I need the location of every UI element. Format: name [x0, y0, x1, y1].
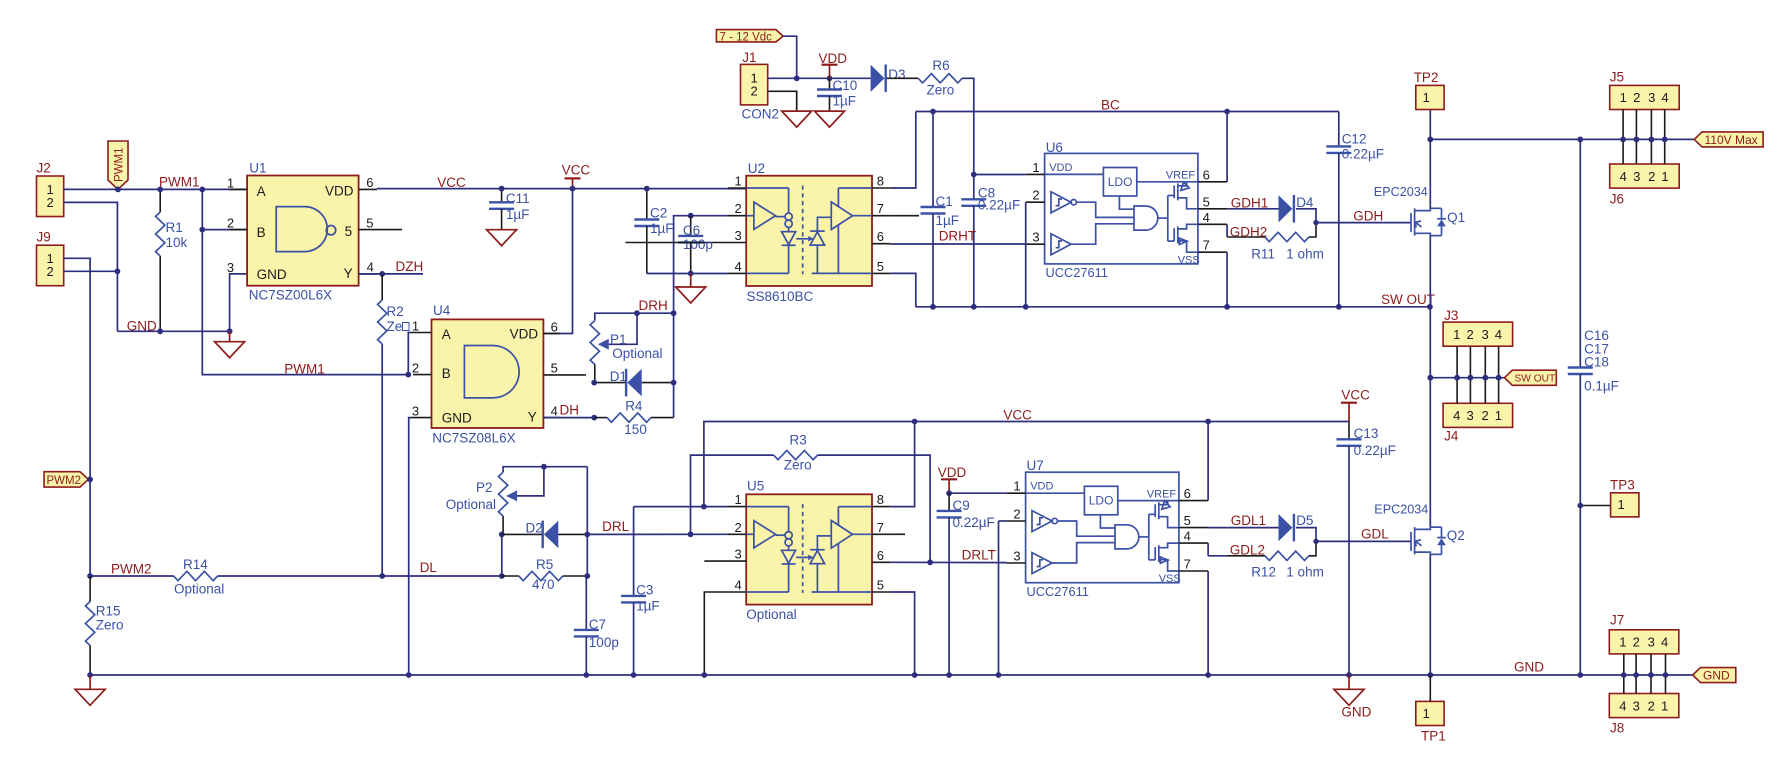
wire J1.1 to D3: [768, 77, 871, 79]
wire VCC lower rail: [704, 422, 1349, 507]
J6 stubs: [1623, 139, 1665, 164]
svg-text:D2: D2: [526, 521, 543, 536]
svg-text:7 - 12 Vdc: 7 - 12 Vdc: [720, 31, 773, 43]
wire U4.3 GND drop: [409, 418, 411, 675]
svg-text:1µF: 1µF: [936, 213, 960, 228]
svg-text:TP1: TP1: [1421, 728, 1446, 743]
IC U7 UCC27611: [1007, 472, 1209, 599]
svg-text:GND: GND: [1514, 659, 1544, 674]
svg-text:10k: 10k: [166, 235, 188, 250]
wire VCC down to U4.VDD: [543, 189, 572, 334]
svg-text:C12: C12: [1342, 132, 1367, 147]
svg-text:U6: U6: [1046, 140, 1063, 155]
connector J2: [37, 176, 64, 217]
node branch top: [199, 187, 205, 193]
svg-text:U2: U2: [748, 161, 765, 176]
svg-text:R6: R6: [932, 58, 949, 73]
U2 pin7 NC stub extension: [890, 215, 919, 217]
capacitor C7 100p: [585, 576, 587, 630]
ground under C11: [487, 230, 517, 246]
svg-text:P2: P2: [476, 480, 493, 495]
svg-text:GDL: GDL: [1361, 526, 1389, 541]
svg-text:VCC: VCC: [562, 162, 591, 177]
tag PWM2: [44, 472, 88, 487]
diode D2: [499, 532, 505, 538]
node R2 top: [379, 271, 385, 277]
svg-text:D3: D3: [888, 67, 905, 82]
svg-text:VCC: VCC: [1341, 388, 1370, 403]
wire U1.VDD to U2.1 (net VCC): [377, 188, 746, 190]
svg-text:110V Max: 110V Max: [1705, 133, 1758, 147]
svg-text:1: 1: [412, 319, 419, 334]
diode D3: [871, 65, 886, 93]
J5 stubs: [1623, 110, 1665, 140]
wire J9.1 down to PWM2: [64, 258, 90, 576]
svg-text:R15: R15: [96, 603, 121, 618]
svg-text:C11: C11: [506, 191, 530, 206]
svg-text:GDL1: GDL1: [1231, 513, 1266, 528]
svg-text:1µF: 1µF: [833, 94, 857, 109]
svg-text:GND: GND: [1703, 668, 1730, 682]
svg-text:B: B: [257, 225, 266, 240]
wire J3 row (SW OUT): [1430, 377, 1504, 379]
wire U1.Y DZH: [359, 273, 423, 275]
svg-text:Optional: Optional: [612, 346, 662, 361]
svg-text:2: 2: [412, 361, 419, 376]
svg-text:Y: Y: [528, 410, 537, 425]
svg-text:SW OUT: SW OUT: [1515, 374, 1556, 385]
wire J1.2 to ground: [768, 91, 797, 111]
svg-text:J4: J4: [1444, 429, 1459, 444]
capacitor C12 0.22uF: [1338, 112, 1340, 147]
wire BC: [916, 111, 1339, 113]
svg-text:DZH: DZH: [396, 259, 424, 274]
tag SW OUT: [1505, 370, 1557, 385]
capacitor C16 C17 C18 0.1uF: [1568, 368, 1593, 375]
wire U5.8 up to VCC: [890, 422, 914, 507]
wire branch to U1.B: [202, 229, 247, 231]
svg-text:C1: C1: [936, 194, 953, 209]
wire U2.5 to SW node: [890, 273, 916, 306]
connector J8: [1609, 694, 1679, 718]
svg-text:2: 2: [227, 216, 234, 231]
ground under U1: [229, 331, 231, 341]
wire C2 bottom to U2.4: [647, 273, 728, 275]
svg-text:R14: R14: [183, 557, 208, 572]
U2 pin3 NC stub extension: [625, 242, 704, 244]
svg-text:0.22µF: 0.22µF: [1354, 443, 1396, 458]
wire U2.2 elbow to DRH column: [674, 216, 728, 314]
svg-text:TP3: TP3: [1610, 478, 1635, 493]
svg-text:1 ohm: 1 ohm: [1286, 565, 1324, 580]
svg-text:DRHT: DRHT: [939, 228, 977, 243]
svg-text:P1: P1: [610, 332, 627, 347]
svg-text:GDH: GDH: [1353, 209, 1383, 224]
capacitor C9 0.22uF: [948, 493, 950, 511]
svg-text:J1: J1: [742, 50, 756, 65]
svg-text:1µF: 1µF: [506, 207, 530, 222]
ground under C13: [1348, 675, 1350, 689]
svg-text:C3: C3: [636, 582, 653, 597]
svg-text:J8: J8: [1610, 721, 1624, 736]
svg-text:PWM1: PWM1: [284, 361, 325, 376]
svg-text:D1: D1: [610, 369, 627, 384]
svg-text:3: 3: [412, 404, 419, 419]
wire U7.7 VSS down to GND: [1207, 571, 1209, 675]
svg-text:150: 150: [624, 422, 647, 437]
svg-text:R11: R11: [1251, 247, 1275, 262]
nodes J7/J8 stubs: [1621, 672, 1627, 678]
resistor R1 10k: [159, 189, 161, 212]
wire DRH column down: [673, 313, 675, 417]
svg-text:U7: U7: [1027, 458, 1044, 473]
svg-text:6: 6: [366, 175, 373, 190]
nodes J5/J6 stubs: [1620, 137, 1626, 143]
svg-text:R5: R5: [536, 557, 553, 572]
transistor Q1 EPC2034: [1411, 208, 1446, 235]
svg-text:0.22µF: 0.22µF: [978, 198, 1020, 213]
wire GDH to Q1 gate: [1316, 222, 1411, 224]
svg-text:VCC: VCC: [1003, 407, 1032, 422]
wire C16 column from 110V rail: [1579, 139, 1581, 367]
connector J6: [1610, 164, 1680, 188]
node VDD/C10: [827, 75, 833, 81]
wire U5 pin1 to C3: [634, 506, 728, 508]
resistor R3 Zero bypass: [691, 455, 774, 534]
svg-text:D5: D5: [1296, 513, 1313, 528]
power symbol VCC (top): [572, 178, 574, 188]
resistor R2 Zero: [381, 274, 383, 300]
wire DRLT U5.6 to U7.3: [890, 561, 1007, 563]
node DRH column: [671, 310, 677, 316]
capacitor C8 0.22uF: [961, 199, 986, 206]
wire 110V rail: [1430, 138, 1694, 140]
wire U7.2 elbow: [999, 520, 1007, 522]
capacitor C11 1uF: [501, 189, 503, 203]
svg-text:NC7SZ08L6X: NC7SZ08L6X: [432, 431, 515, 446]
ground under C6: [690, 274, 692, 288]
J7 stubs: [1624, 654, 1666, 675]
svg-text:EPC2034: EPC2034: [1374, 185, 1428, 199]
svg-text:5: 5: [551, 361, 558, 376]
connector J1: [741, 64, 768, 105]
svg-text:1: 1: [227, 175, 234, 190]
svg-text:B: B: [442, 366, 451, 381]
svg-text:Ze: Ze: [387, 319, 403, 334]
svg-text:C9: C9: [953, 498, 970, 513]
wire DRH top: [595, 313, 674, 320]
svg-text:SS8610BC: SS8610BC: [747, 289, 814, 304]
resistor R4 150: [594, 417, 607, 419]
wire U6.2 drop to SW node: [1025, 202, 1027, 307]
connector J7: [1609, 630, 1679, 654]
IC U2 SS8610BC: [704, 174, 890, 287]
svg-text:SW OUT: SW OUT: [1381, 292, 1435, 307]
wire D2 node column: [586, 467, 588, 576]
svg-text:1 ohm: 1 ohm: [1286, 247, 1324, 262]
wire U4.Y DH: [543, 417, 594, 419]
svg-text:J7: J7: [1610, 613, 1624, 628]
node branch B: [199, 227, 205, 233]
node R1 bottom: [157, 328, 163, 334]
svg-text:5: 5: [345, 224, 353, 239]
ground under J1.2: [782, 111, 812, 127]
svg-text:J2: J2: [37, 161, 51, 176]
wire U5.4 down to GND: [704, 592, 728, 675]
power symbol VCC (lower right): [1348, 403, 1350, 422]
svg-text:BC: BC: [1101, 97, 1120, 112]
tag GND: [1693, 668, 1736, 683]
connector J3: [1443, 322, 1513, 346]
svg-text:VDD: VDD: [325, 183, 354, 198]
wire C8 to U6.1: [974, 174, 1026, 176]
test point TP1: [1416, 701, 1444, 725]
diode D4 + resistor R11: [1227, 195, 1319, 242]
wire U1.GND elbow: [230, 274, 248, 331]
svg-text:R2: R2: [387, 304, 404, 319]
svg-text:U1: U1: [249, 161, 266, 176]
wire VDD to U7.1: [949, 492, 1007, 494]
svg-text:J9: J9: [37, 230, 51, 245]
wire P2 bottom column: [501, 534, 503, 576]
svg-text:GND: GND: [442, 411, 472, 426]
diode D1: [594, 382, 626, 384]
svg-text:NC7SZ00L6X: NC7SZ00L6X: [249, 287, 332, 302]
capacitor C6 100p: [688, 213, 694, 219]
svg-text:R1: R1: [166, 220, 183, 235]
svg-text:DRLT: DRLT: [962, 547, 996, 562]
node R15 bottom: [87, 672, 93, 678]
svg-text:Q2: Q2: [1447, 528, 1465, 543]
wire Q2 source down to GND: [1429, 554, 1431, 675]
svg-text:PWM2: PWM2: [47, 475, 82, 487]
connector J4: [1443, 403, 1513, 427]
svg-text:A: A: [442, 327, 451, 342]
svg-text:GDH2: GDH2: [1230, 225, 1268, 240]
svg-text:VCC: VCC: [437, 175, 466, 190]
wire U6.4 elbow down: [1226, 224, 1228, 237]
svg-text:PWM2: PWM2: [111, 561, 152, 576]
wire Q1 drain up to 110V rail: [1429, 110, 1431, 209]
J4 stubs: [1457, 378, 1499, 404]
svg-text:VDD: VDD: [938, 465, 967, 480]
node Q1 source / SW: [1427, 304, 1433, 310]
svg-text:J6: J6: [1610, 192, 1624, 207]
IC U1 NC7SZ00L6X: [227, 175, 402, 286]
U5 pin7 NC stub extension: [890, 533, 905, 535]
svg-text:C18: C18: [1584, 355, 1609, 370]
potentiometer P1 Optional: [590, 321, 599, 365]
wire U6.6 VREF up to BC: [1226, 112, 1228, 182]
svg-text:PWM1: PWM1: [114, 148, 126, 183]
svg-text:1µF: 1µF: [650, 221, 674, 236]
transistor Q2 EPC2034: [1411, 527, 1446, 554]
svg-text:PWM1: PWM1: [159, 175, 200, 190]
svg-text:0.22µF: 0.22µF: [1342, 147, 1384, 162]
tag PWM1 (vertical flag): [108, 141, 128, 189]
wire DRHT U2.6 to U6.3: [890, 243, 1025, 245]
tag 110V Max: [1694, 132, 1763, 147]
ground bottom-left: [89, 675, 91, 689]
power symbol VDD (top): [829, 65, 831, 79]
wire P2 top: [503, 467, 587, 472]
svg-text:Optional: Optional: [174, 581, 224, 596]
node DH: [591, 415, 597, 421]
wire PWM2 to R14: [90, 575, 174, 577]
node DL/R5: [499, 573, 505, 579]
wire Q1 source down: [1429, 236, 1431, 527]
svg-text:0.1µF: 0.1µF: [1584, 379, 1619, 394]
node PWM2/R15: [87, 573, 93, 579]
wire U6.7 VSS down to SW node: [1226, 252, 1228, 307]
resistor R5 470: [502, 575, 519, 577]
connector J9: [37, 245, 64, 286]
wire tag to J1.1: [783, 36, 797, 78]
svg-text:VDD: VDD: [510, 327, 539, 342]
node U1 gnd: [227, 328, 233, 334]
svg-text:D4: D4: [1296, 195, 1314, 210]
wire R6 to C8 column: [962, 78, 974, 199]
capacitor C1 1uF: [930, 109, 936, 115]
node PWM1 tag junction: [115, 187, 121, 193]
svg-text:5: 5: [366, 215, 373, 230]
wire U4.1 branch from PWM1: [408, 333, 410, 375]
wire GND bottom rail: [90, 674, 1693, 676]
wire DRL to U5.2: [587, 533, 728, 535]
svg-text:GND: GND: [1341, 705, 1371, 720]
svg-text:6: 6: [551, 319, 558, 334]
svg-text:DL: DL: [420, 560, 438, 575]
svg-text:J5: J5: [1610, 70, 1624, 85]
wire U7.2 drop to GND: [998, 521, 1000, 675]
node tag drop: [794, 75, 800, 81]
svg-text:DRL: DRL: [602, 519, 629, 534]
svg-text:Optional: Optional: [746, 607, 796, 622]
wire J2.1 to U1.A (net PWM1): [64, 188, 247, 190]
capacitor C3 1uF: [633, 507, 635, 596]
svg-text:R3: R3: [790, 433, 807, 448]
svg-text:U5: U5: [747, 478, 764, 493]
capacitor C10 1uF: [829, 78, 831, 89]
svg-text:J3: J3: [1444, 308, 1458, 323]
node R1 top: [157, 187, 163, 193]
potentiometer P2 Optional: [498, 472, 507, 516]
IC U5 SS8610BC (Optional): [704, 492, 890, 605]
svg-text:CON2: CON2: [742, 107, 780, 122]
connector J5: [1610, 85, 1680, 109]
svg-text:GND: GND: [257, 267, 287, 282]
svg-text:0.22µF: 0.22µF: [953, 515, 995, 530]
wire U2.8 to BC: [890, 112, 916, 189]
svg-text:4: 4: [551, 403, 558, 418]
wire D3 to R6: [887, 77, 918, 79]
resistor R14 Optional: [174, 571, 218, 580]
svg-text:Zero: Zero: [927, 83, 955, 98]
wire U7.4/U7.5 to D5/R12: [1208, 527, 1227, 529]
svg-text:100p: 100p: [683, 237, 713, 252]
wire R14 to DL node: [218, 575, 502, 577]
svg-text:A: A: [257, 184, 266, 199]
svg-text:C7: C7: [589, 617, 606, 632]
wire GND left: [117, 330, 229, 332]
wire GDL to Q2 gate: [1316, 540, 1411, 542]
svg-text:DH: DH: [560, 403, 580, 418]
J3 stubs: [1457, 346, 1499, 378]
svg-text:Q1: Q1: [1447, 210, 1465, 225]
wire J9.2 join: [64, 270, 118, 272]
svg-text:Zero: Zero: [784, 458, 812, 473]
svg-text:EPC2034: EPC2034: [1374, 503, 1428, 517]
svg-text:C13: C13: [1354, 426, 1379, 441]
wire SW node bottom: [916, 306, 1430, 308]
J8 stubs: [1624, 675, 1666, 694]
svg-text:U4: U4: [433, 303, 451, 318]
IC U6 UCC27611: [1026, 153, 1228, 280]
svg-text:4: 4: [367, 260, 374, 275]
svg-text:GND: GND: [127, 319, 157, 334]
ground under C10: [815, 111, 845, 127]
svg-text:Y: Y: [344, 266, 353, 281]
svg-text:R4: R4: [625, 399, 643, 414]
svg-text:VDD: VDD: [819, 51, 848, 66]
wire PWM1 branch down: [202, 189, 408, 374]
svg-text:C2: C2: [650, 206, 667, 221]
wire U7.4 elbow down: [1207, 543, 1209, 556]
resistor R15 Zero: [89, 576, 91, 602]
capacitor C2 1uF: [646, 189, 648, 220]
resistor R6 Zero: [918, 74, 962, 83]
capacitor C13 0.22uF: [1348, 422, 1350, 440]
nodes J3/J4 stubs: [1454, 375, 1460, 381]
node J9.2 junction: [115, 268, 121, 274]
wire U5.5 down to GND: [890, 592, 914, 675]
node R2 bottom on DL: [379, 573, 385, 579]
power symbol VDD (lower): [948, 479, 950, 493]
test point TP2: [1416, 85, 1444, 109]
tag 7-12 Vdc: [716, 30, 783, 42]
svg-text:DRH: DRH: [639, 298, 668, 313]
test point TP3: [1611, 493, 1639, 517]
svg-text:GDH1: GDH1: [1231, 195, 1269, 210]
svg-text:1µF: 1µF: [636, 598, 660, 613]
svg-text:C10: C10: [833, 78, 858, 93]
diode D5 + resistor R12: [1227, 514, 1319, 561]
svg-text:Optional: Optional: [446, 497, 496, 512]
svg-text:R12: R12: [1251, 565, 1276, 580]
svg-text:Zero: Zero: [96, 617, 124, 632]
svg-text:470: 470: [532, 577, 555, 592]
IC U4 NC7SZ08L6X: [411, 319, 587, 429]
svg-text:100p: 100p: [589, 635, 619, 650]
svg-text:GDL2: GDL2: [1230, 542, 1265, 557]
svg-text:3: 3: [227, 260, 234, 275]
wire J2.2 down: [64, 202, 118, 331]
wire U7.6 VREF up to VCC: [1207, 422, 1209, 501]
svg-text:TP2: TP2: [1414, 70, 1439, 85]
